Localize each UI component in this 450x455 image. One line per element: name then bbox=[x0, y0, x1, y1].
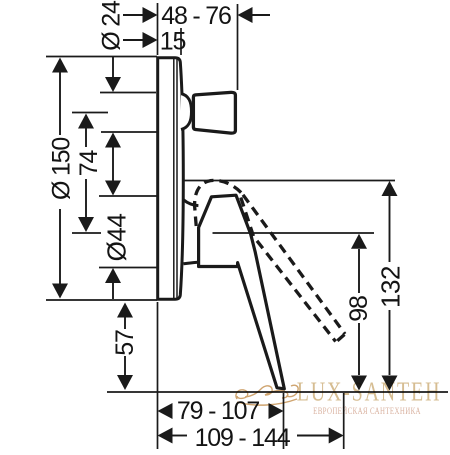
svg-text:98: 98 bbox=[345, 296, 373, 322]
svg-text:109 - 144: 109 - 144 bbox=[195, 424, 291, 450]
dimension chain 57 bbox=[124, 318, 126, 376]
dimension 109-144 bbox=[158, 428, 344, 444]
raised handle dashed cap bbox=[195, 180, 242, 226]
svg-text:ЕВРОПЕЙСКАЯ САНТЕХНИКА: ЕВРОПЕЙСКАЯ САНТЕХНИКА bbox=[313, 406, 421, 416]
tick knob center bbox=[72, 112, 108, 114]
plate inner line 2 bbox=[176, 59, 178, 298]
dimension chain O24/O44 bbox=[112, 57, 114, 299]
tick sleeve top bbox=[99, 195, 157, 197]
svg-text:Ø 24: Ø 24 bbox=[98, 0, 126, 51]
extension line knob tip bbox=[237, 4, 239, 90]
extension line lever tip bbox=[283, 393, 285, 449]
tick pivot right bbox=[213, 232, 375, 234]
handle neck bottom bbox=[184, 262, 199, 264]
tick raised handle top bbox=[184, 180, 395, 182]
leader O24 bbox=[123, 15, 143, 40]
knob stub bbox=[181, 94, 192, 130]
svg-text:57: 57 bbox=[111, 330, 139, 356]
svg-text:LUX-SANTEH: LUX-SANTEH bbox=[297, 378, 442, 408]
svg-text:48 - 76: 48 - 76 bbox=[161, 2, 231, 30]
escutcheon plate bbox=[158, 58, 184, 300]
watermark bbox=[236, 378, 441, 417]
tick knob top bbox=[100, 92, 156, 94]
raised lever tip dashed bbox=[336, 335, 344, 342]
dimension chain 74 bbox=[85, 128, 87, 218]
tick pivot left bbox=[72, 232, 101, 234]
svg-text:74: 74 bbox=[75, 150, 103, 177]
tick knob bottom bbox=[101, 131, 184, 133]
dimension chain 132 bbox=[389, 196, 391, 375]
handle with lever bbox=[199, 195, 285, 389]
extension line 15 right bbox=[180, 28, 182, 55]
tick sleeve bottom bbox=[99, 267, 157, 269]
extension line wall bottom bbox=[157, 302, 159, 449]
handle neck top bbox=[184, 200, 199, 206]
extension line dashed lever tip bbox=[343, 393, 345, 449]
dimension 79-107 bbox=[158, 403, 284, 419]
dimension chain 98 bbox=[358, 249, 360, 375]
raised lever upper edge dashed bbox=[243, 195, 345, 334]
svg-text:15: 15 bbox=[160, 28, 186, 56]
raised lever lower edge dashed bbox=[241, 198, 336, 342]
watermark swan bbox=[236, 385, 298, 405]
svg-text:Ø44: Ø44 bbox=[102, 214, 132, 262]
tick plate top bbox=[46, 56, 157, 58]
svg-text:132: 132 bbox=[376, 266, 406, 308]
baseline lever tip level bbox=[107, 391, 448, 393]
tick plate bottom bbox=[46, 299, 157, 301]
knob bbox=[193, 92, 235, 133]
dimension chain O150 bbox=[59, 72, 61, 284]
svg-text:Ø 150: Ø 150 bbox=[48, 138, 76, 200]
svg-text:79 - 107: 79 - 107 bbox=[177, 397, 259, 425]
extension line wall top bbox=[157, 3, 159, 55]
plate inner line 1 bbox=[173, 59, 175, 298]
arrow 48-76 right bbox=[238, 7, 253, 23]
